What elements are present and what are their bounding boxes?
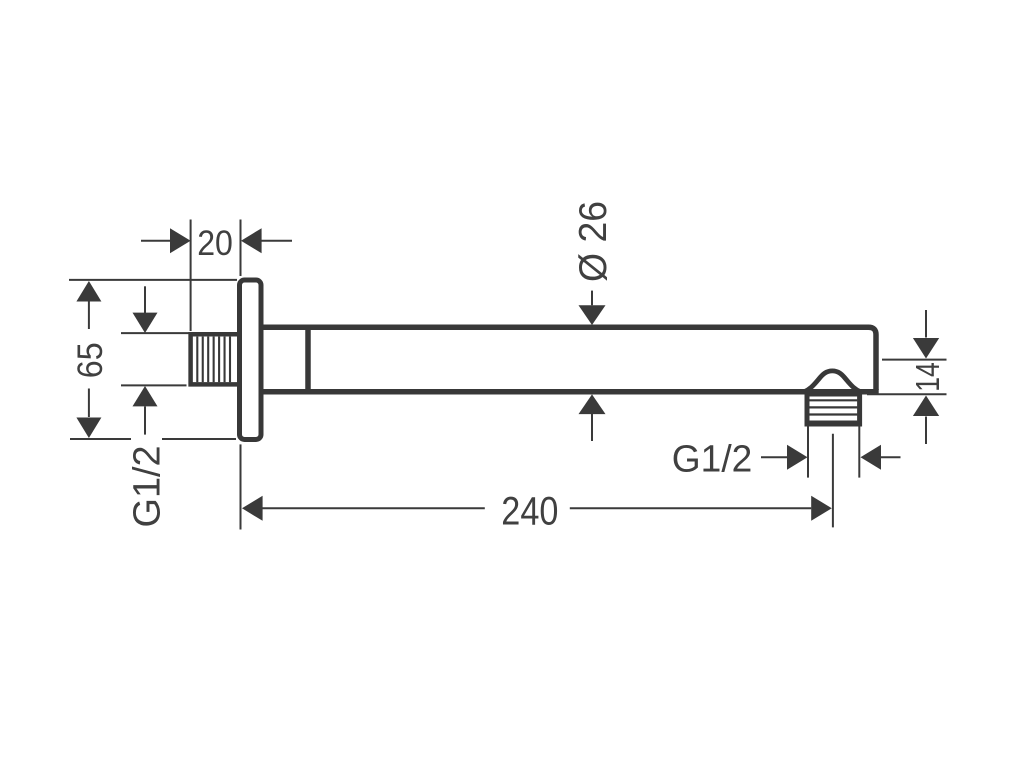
dimension G1/2 right: lines — [761, 425, 901, 478]
svg-text:20: 20 — [197, 224, 233, 263]
svg-text:240: 240 — [501, 489, 558, 533]
tube bottom edge — [260, 389, 879, 395]
dimension 65: arrows — [76, 281, 101, 302]
svg-text:Ø 26: Ø 26 — [572, 201, 615, 282]
dimension G1/2 left: arrows — [133, 313, 158, 333]
wall flange — [240, 280, 262, 440]
dimension 14: arrows — [913, 338, 939, 359]
svg-text:G1/2: G1/2 — [672, 438, 753, 481]
shower arm tube: top edge + right end — [260, 327, 876, 390]
outlet dome — [803, 371, 861, 392]
dimension G1/2 right: arrows — [787, 445, 808, 470]
wall-side threaded nipple — [191, 334, 237, 384]
dimension G1/2 left: extension lines — [121, 286, 191, 434]
dimension 20: extension lines — [141, 220, 292, 332]
dimension 65: extension lines — [69, 280, 237, 439]
outlet threaded stub — [807, 394, 860, 424]
svg-text:G1/2: G1/2 — [127, 445, 169, 527]
dimension 14: extension lines — [867, 310, 947, 444]
dimension 20: arrows — [170, 228, 191, 253]
tube joint line — [305, 325, 311, 394]
nipple thread hatch — [197, 337, 230, 383]
svg-text:65: 65 — [70, 342, 110, 378]
outlet thread hatch — [809, 400, 857, 421]
dimension diameter 26: arrows — [579, 305, 606, 325]
dimension 240: lines — [241, 434, 833, 530]
dimension diameter 26: leader lines — [591, 291, 593, 441]
dimension 240: arrows — [242, 496, 263, 521]
svg-text:14: 14 — [909, 362, 946, 392]
